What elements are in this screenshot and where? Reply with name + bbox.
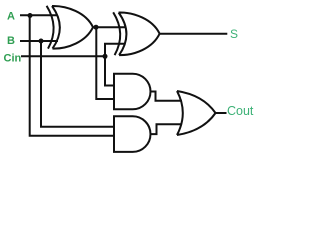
wire A input [20, 14, 57, 16]
wire Cin down-branch to AND1 [105, 56, 114, 85]
xor-gate U2 (sum) [113, 12, 159, 55]
svg-text:Cin: Cin [4, 52, 22, 64]
wire S output [159, 33, 227, 35]
or-gate U5 (carry out) [177, 91, 216, 135]
wire Cin up-branch to XOR2 [105, 44, 125, 57]
wire XOR1 output riser to AND1 [96, 27, 114, 99]
junction dot on B [39, 39, 44, 44]
junction dot XOR1 output [94, 25, 99, 30]
junction dot on Cin [103, 54, 108, 59]
wire AND2 output to OR [151, 124, 183, 134]
wire AND1 output to OR [151, 92, 183, 101]
wire Cout output [216, 112, 227, 114]
svg-text:A: A [7, 10, 15, 22]
wire Cin input [21, 55, 105, 57]
and-gate U4 (A and B) [114, 116, 150, 152]
xor-gate U1 (A xor B) [47, 6, 93, 49]
svg-text:Cout: Cout [227, 104, 254, 118]
wire A riser to AND2 [30, 15, 114, 136]
wire B input [20, 40, 58, 42]
wire XOR1 output to XOR2 [93, 26, 126, 28]
and-gate U3 (Cin and (A xor B)) [114, 74, 151, 110]
wire B riser to AND2 [41, 41, 114, 127]
junction dot on A [28, 13, 33, 18]
svg-text:S: S [230, 27, 238, 41]
svg-text:B: B [7, 35, 15, 47]
